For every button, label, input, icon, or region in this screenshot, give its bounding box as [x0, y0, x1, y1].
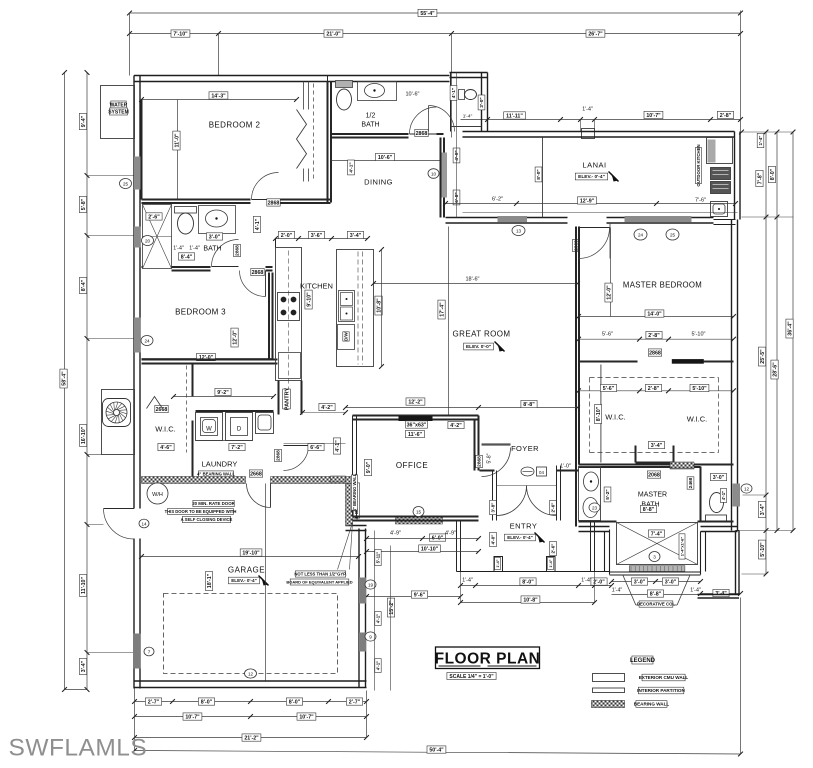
- svg-text:2868: 2868: [268, 200, 280, 206]
- svg-text:7'-10": 7'-10": [173, 31, 188, 37]
- svg-text:2'-8": 2'-8": [648, 386, 660, 392]
- svg-text:10'-8": 10'-8": [523, 597, 538, 603]
- svg-text:6'-2": 6'-2": [492, 197, 503, 203]
- svg-text:4'-1": 4'-1": [376, 661, 381, 670]
- svg-text:PANTRY: PANTRY: [285, 388, 291, 411]
- svg-text:2'-0": 2'-0": [593, 579, 605, 585]
- svg-text:2668: 2668: [250, 471, 262, 477]
- svg-text:50'-4": 50'-4": [429, 747, 444, 753]
- svg-text:9: 9: [369, 634, 372, 639]
- svg-text:25: 25: [123, 181, 129, 186]
- svg-text:26'-7": 26'-7": [588, 31, 603, 37]
- svg-text:W.I.C.: W.I.C.: [155, 425, 175, 434]
- svg-text:36'-4": 36'-4": [787, 321, 793, 336]
- svg-text:2868: 2868: [649, 350, 661, 356]
- svg-text:15: 15: [416, 509, 422, 514]
- svg-text:16'-10": 16'-10": [81, 426, 87, 444]
- svg-text:17'-4": 17'-4": [439, 302, 445, 317]
- svg-text:3'-0": 3'-0": [634, 579, 646, 585]
- svg-text:8'-0": 8'-0": [770, 168, 776, 180]
- svg-text:20 MIN. RATE DOOR: 20 MIN. RATE DOOR: [192, 501, 235, 506]
- svg-text:9'-6": 9'-6": [414, 592, 426, 598]
- svg-text:8'-8": 8'-8": [643, 507, 655, 513]
- svg-text:4'-1": 4'-1": [335, 440, 341, 452]
- svg-text:2'-7": 2'-7": [148, 699, 160, 705]
- svg-text:SCALE 1/4" = 1'-0": SCALE 1/4" = 1'-0": [449, 674, 494, 680]
- svg-text:36"x63": 36"x63": [407, 422, 427, 428]
- svg-text:25: 25: [670, 232, 676, 237]
- svg-text:58'-4": 58'-4": [61, 371, 67, 386]
- svg-text:KITCHEN: KITCHEN: [300, 282, 333, 291]
- svg-text:4'-9": 4'-9": [390, 531, 401, 537]
- svg-text:DECORATIVE COL: DECORATIVE COL: [637, 602, 675, 607]
- svg-text:14'-3": 14'-3": [211, 93, 226, 99]
- svg-text:8'-0": 8'-0": [536, 169, 542, 179]
- svg-text:MASTER: MASTER: [638, 492, 667, 499]
- svg-text:15'-2": 15'-2": [389, 600, 395, 615]
- svg-text:4'-1": 4'-1": [376, 614, 381, 623]
- svg-text:9'-4": 9'-4": [81, 115, 87, 127]
- svg-text:8'-4": 8'-4": [81, 279, 87, 291]
- svg-text:BATH: BATH: [361, 122, 379, 129]
- svg-text:14: 14: [141, 521, 147, 526]
- svg-text:25'-5": 25'-5": [760, 349, 766, 364]
- svg-text:4'-0": 4'-0": [491, 535, 496, 545]
- svg-text:3'-4": 3'-4": [651, 443, 663, 449]
- svg-text:10'-7": 10'-7": [299, 714, 314, 720]
- svg-text:W/H: W/H: [152, 492, 163, 498]
- svg-text:6'-6": 6'-6": [310, 445, 322, 451]
- svg-text:1'-4": 1'-4": [189, 246, 200, 252]
- svg-text:ELEV. 0'-0": ELEV. 0'-0": [466, 344, 491, 350]
- svg-text:ELEV.- 0'-4": ELEV.- 0'-4": [578, 174, 605, 180]
- svg-text:7'-4": 7'-4": [651, 531, 663, 537]
- svg-text:D: D: [237, 427, 242, 433]
- svg-text:3'-0": 3'-0": [479, 97, 485, 107]
- svg-text:7'-6": 7'-6": [695, 198, 706, 204]
- svg-text:8'-4": 8'-4": [181, 254, 193, 260]
- svg-text:2'-8": 2'-8": [648, 333, 660, 339]
- svg-text:12'-0": 12'-0": [606, 285, 612, 300]
- svg-text:FOYER: FOYER: [511, 444, 539, 453]
- svg-text:2868: 2868: [477, 456, 483, 467]
- svg-text:5'-10": 5'-10": [691, 332, 705, 338]
- svg-text:4" BEARING WALL: 4" BEARING WALL: [352, 473, 357, 511]
- svg-text:2'-6": 2'-6": [551, 503, 556, 513]
- svg-text:BEDROOM 2: BEDROOM 2: [209, 121, 261, 130]
- svg-text:GREAT ROOM: GREAT ROOM: [453, 330, 511, 339]
- svg-text:3'-8": 3'-8": [491, 503, 496, 513]
- svg-text:5'-8": 5'-8": [81, 198, 87, 210]
- svg-text:SWFLAMLS: SWFLAMLS: [9, 735, 148, 762]
- svg-text:5'-11": 5'-11": [376, 552, 381, 564]
- svg-text:4'-1": 4'-1": [349, 162, 355, 172]
- svg-text:BOARD OF EQUIVALENT APPLIED: BOARD OF EQUIVALENT APPLIED: [286, 579, 352, 584]
- svg-text:12'-2": 12'-2": [408, 399, 423, 405]
- svg-text:11'-11": 11'-11": [506, 113, 523, 119]
- svg-text:WATER: WATER: [110, 102, 128, 108]
- svg-text:5'-2": 5'-2": [605, 489, 611, 499]
- svg-text:5'-6": 5'-6": [603, 386, 615, 392]
- svg-text:10'-10": 10'-10": [421, 546, 439, 552]
- svg-text:13: 13: [516, 228, 522, 233]
- svg-text:MASTER BEDROOM: MASTER BEDROOM: [623, 281, 702, 290]
- svg-text:18'-6": 18'-6": [465, 277, 479, 283]
- svg-text:5'-10": 5'-10": [760, 542, 766, 557]
- svg-text:1'-4": 1'-4": [582, 107, 593, 113]
- svg-text:9'-2": 9'-2": [217, 390, 229, 396]
- svg-text:THIS DOOR TO BE EQUIPPED WITH: THIS DOOR TO BE EQUIPPED WITH: [165, 509, 237, 514]
- svg-text:3'-0": 3'-0": [209, 234, 221, 240]
- svg-text:2'-7": 2'-7": [349, 699, 361, 705]
- svg-text:8'-0": 8'-0": [522, 579, 534, 585]
- svg-text:8'-0": 8'-0": [289, 699, 301, 705]
- svg-text:W: W: [206, 427, 212, 433]
- svg-text:OFFICE: OFFICE: [396, 461, 428, 470]
- svg-text:EXTERIOR CMU WALL: EXTERIOR CMU WALL: [639, 675, 689, 680]
- svg-text:3'-0": 3'-0": [665, 579, 677, 585]
- svg-text:9'-0": 9'-0": [366, 461, 372, 473]
- svg-text:LANAI: LANAI: [582, 161, 606, 170]
- svg-text:8'-10": 8'-10": [596, 406, 602, 421]
- svg-text:11'-10": 11'-10": [81, 577, 87, 595]
- svg-text:9'-10": 9'-10": [306, 292, 312, 307]
- svg-text:1'-4": 1'-4": [173, 246, 184, 252]
- svg-text:20: 20: [145, 238, 151, 243]
- svg-text:LEGEND: LEGEND: [630, 658, 656, 664]
- svg-text:2068: 2068: [648, 472, 660, 478]
- svg-text:4'-1": 4'-1": [255, 218, 261, 230]
- svg-text:21'-2": 21'-2": [244, 735, 259, 741]
- svg-text:1'-4": 1'-4": [690, 588, 701, 594]
- svg-text:2668: 2668: [156, 407, 168, 413]
- svg-text:10'-7": 10'-7": [185, 714, 200, 720]
- svg-text:A SELF CLOSING DEVICE: A SELF CLOSING DEVICE: [181, 517, 233, 522]
- svg-text:4" BEARING WALL: 4" BEARING WALL: [197, 472, 235, 477]
- svg-text:21'-0": 21'-0": [326, 31, 341, 37]
- svg-text:3'-4": 3'-4": [350, 233, 362, 239]
- svg-text:GARAGE: GARAGE: [228, 566, 265, 575]
- svg-text:BEARING WALL: BEARING WALL: [634, 702, 670, 707]
- svg-text:2'-0": 2'-0": [281, 233, 293, 239]
- svg-text:2'-6": 2'-6": [551, 544, 556, 554]
- svg-text:W.I.C.: W.I.C.: [605, 413, 625, 422]
- svg-text:3'-0": 3'-0": [713, 475, 725, 481]
- svg-text:12'-9": 12'-9": [580, 198, 595, 204]
- svg-text:4'-9": 4'-9": [445, 531, 456, 537]
- svg-text:23: 23: [592, 505, 598, 510]
- svg-text:5'-10": 5'-10": [692, 386, 707, 392]
- svg-text:6'-8": 6'-8": [454, 192, 460, 202]
- svg-text:DINING: DINING: [364, 178, 393, 187]
- svg-text:3'-4": 3'-4": [760, 503, 766, 515]
- svg-text:1'-4": 1'-4": [462, 578, 473, 584]
- svg-text:4'-1": 4'-1": [451, 88, 457, 98]
- svg-text:12'-0": 12'-0": [232, 330, 238, 345]
- svg-text:W.I.C.: W.I.C.: [687, 415, 707, 424]
- svg-text:ENTRY: ENTRY: [510, 522, 538, 531]
- svg-text:18'-1": 18'-1": [207, 573, 213, 588]
- svg-text:ELEV.- 0'-4": ELEV.- 0'-4": [231, 578, 257, 583]
- svg-text:4'-6": 4'-6": [160, 445, 172, 451]
- svg-text:10'-6": 10'-6": [378, 155, 393, 161]
- svg-text:BATH: BATH: [203, 246, 221, 253]
- svg-text:4'-2": 4'-2": [321, 405, 333, 411]
- svg-text:14'-0": 14'-0": [647, 311, 662, 317]
- svg-text:10'-6": 10'-6": [405, 92, 419, 98]
- svg-text:5'-6": 5'-6": [602, 332, 613, 338]
- svg-text:4'-0": 4'-0": [454, 150, 460, 160]
- svg-text:1'-4": 1'-4": [612, 588, 623, 594]
- svg-text:11'-6": 11'-6": [408, 432, 423, 438]
- svg-text:28'-6": 28'-6": [772, 362, 778, 377]
- svg-text:1'-0": 1'-0": [560, 464, 571, 470]
- svg-text:2'-8": 2'-8": [720, 113, 732, 119]
- svg-text:4'-2": 4'-2": [450, 423, 462, 429]
- svg-text:NOT LESS THAN 1/2"GYP.: NOT LESS THAN 1/2"GYP.: [294, 572, 346, 577]
- svg-text:ELEV.- 0'-4": ELEV.- 0'-4": [507, 535, 533, 540]
- svg-text:FLOOR PLAN: FLOOR PLAN: [435, 651, 541, 668]
- svg-text:1'-4": 1'-4": [463, 114, 473, 120]
- svg-text:INTERIOR PARTITION: INTERIOR PARTITION: [637, 688, 685, 693]
- svg-text:10: 10: [431, 171, 437, 176]
- svg-text:5'-8": 5'-8": [487, 453, 493, 463]
- svg-text:3: 3: [653, 554, 656, 559]
- svg-text:8'-8": 8'-8": [523, 402, 535, 408]
- svg-text:1'-4": 1'-4": [549, 559, 553, 567]
- svg-text:BEDROOM 3: BEDROOM 3: [175, 308, 226, 317]
- svg-text:1'-4": 1'-4": [581, 578, 592, 584]
- svg-text:1'-4": 1'-4": [496, 559, 500, 567]
- svg-text:3'-6": 3'-6": [311, 233, 323, 239]
- svg-text:1/2: 1/2: [366, 113, 376, 120]
- svg-text:10'-7": 10'-7": [646, 113, 661, 119]
- svg-text:LAUNDRY: LAUNDRY: [202, 460, 238, 469]
- svg-text:2468: 2468: [688, 477, 694, 488]
- svg-text:2868: 2868: [276, 450, 282, 461]
- svg-text:SYSTEM: SYSTEM: [108, 109, 129, 115]
- svg-text:55'-4": 55'-4": [420, 11, 435, 17]
- svg-text:2'-6": 2'-6": [148, 214, 160, 220]
- svg-text:2868: 2868: [416, 131, 428, 137]
- svg-text:8'-0": 8'-0": [201, 699, 213, 705]
- svg-text:19: 19: [368, 582, 374, 587]
- svg-text:3'-4": 3'-4": [81, 660, 87, 672]
- svg-text:OUTDOOR KITCHEN: OUTDOOR KITCHEN: [696, 144, 701, 186]
- svg-text:2868: 2868: [235, 245, 241, 256]
- svg-text:24: 24: [638, 232, 644, 237]
- svg-text:12: 12: [248, 671, 254, 676]
- svg-text:7'-2": 7'-2": [231, 445, 243, 451]
- svg-text:8'-8": 8'-8": [650, 591, 662, 597]
- svg-text:2868: 2868: [252, 270, 264, 276]
- svg-text:1'-4": 1'-4": [758, 136, 763, 146]
- svg-text:7'-8": 7'-8": [757, 172, 763, 184]
- svg-text:24: 24: [144, 338, 150, 343]
- svg-text:D/W: D/W: [344, 331, 349, 340]
- svg-text:04: 04: [539, 470, 544, 475]
- svg-text:4'-1": 4'-1": [721, 491, 726, 500]
- svg-text:7: 7: [148, 649, 151, 654]
- svg-text:19'-10": 19'-10": [242, 550, 260, 556]
- svg-text:11'-0": 11'-0": [174, 133, 180, 148]
- svg-text:12: 12: [744, 486, 750, 491]
- svg-text:1'-4"x1'-6": 1'-4"x1'-6": [679, 537, 684, 557]
